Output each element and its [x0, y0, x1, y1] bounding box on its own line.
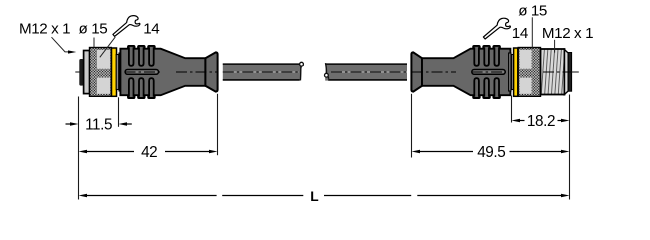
connector J1 thread face	[84, 51, 90, 94]
centerline J2 cap	[412, 71, 456, 73]
extension line right tip x569.5	[569, 95, 571, 200]
connector J2 nut flat lower	[520, 78, 532, 94]
centerline left stub	[75, 71, 90, 73]
dimension 11.5 right outside arrow	[119, 122, 128, 125]
connector J1 female front nose	[79, 59, 83, 86]
cable left light centerline stripe	[223, 71, 299, 73]
leader M12x1 left	[52, 37, 70, 52]
extension line right cap x411.5	[411, 94, 413, 158]
connector J1 rib groove 2	[139, 47, 144, 66]
centerline J2 slot	[472, 71, 506, 73]
wrench icon left	[113, 16, 140, 37]
cable right segment	[325, 63, 407, 80]
svg-text:49.5: 49.5	[477, 144, 505, 161]
connector J2 thread M12	[541, 49, 565, 95]
connector J1 yellow band	[112, 48, 117, 96]
connector J2 knurled nut	[518, 48, 540, 97]
svg-text:M12 x 1: M12 x 1	[542, 25, 593, 42]
connector J2 spacer ring	[509, 53, 511, 91]
connector J2 rib groove 1	[474, 47, 479, 66]
cable right bottom edge	[328, 79, 407, 81]
connector J1 nut flat lower	[97, 78, 110, 94]
connector J1 rib groove 3 bottom	[149, 78, 154, 97]
dimension 49.5 line	[412, 150, 421, 153]
connector J1 rib groove 1	[129, 47, 134, 66]
connector J1 spacer ring	[116, 55, 119, 90]
cable break right loop	[325, 73, 329, 77]
connector J2 thread chamfer	[565, 50, 569, 95]
connector J1 nut flat upper	[97, 50, 110, 69]
cable right top edge	[325, 63, 407, 65]
svg-text:ø 15: ø 15	[518, 2, 547, 19]
cable left top edge	[223, 63, 304, 65]
centerline J1 slot	[125, 71, 161, 73]
connector J2 rib groove 2	[484, 47, 489, 66]
connector J2 rib groove 1 bottom	[474, 78, 479, 97]
wrench icon right	[483, 18, 510, 39]
cable break left squiggle stem	[299, 66, 302, 80]
svg-text:14: 14	[512, 25, 528, 42]
connector J2 rib groove 3	[494, 47, 499, 66]
cable left bottom edge	[223, 79, 301, 81]
connector J2 label slot	[472, 70, 505, 75]
connector J2 rib groove 2 bottom	[484, 78, 489, 97]
svg-text:11.5: 11.5	[85, 116, 112, 133]
connector J2 yellow band	[514, 48, 518, 96]
svg-text:ø 15: ø 15	[79, 21, 108, 38]
svg-text:L: L	[310, 189, 318, 204]
cable break right loop exit	[327, 76, 330, 78]
connector J1 rib groove 1 bottom	[129, 78, 134, 97]
connector J1 rib groove 3	[149, 47, 154, 66]
cable break left loop	[300, 62, 304, 66]
cable break right white cutout	[322, 62, 327, 73]
connector J2 front face	[568, 53, 571, 92]
dimension 18.2 line	[512, 119, 521, 122]
svg-text:M12 x 1: M12 x 1	[19, 21, 70, 38]
connector J2 strain relief cap	[411, 52, 422, 91]
connector J1 strain relief cap	[205, 52, 217, 91]
cable left dash-dot centerline	[223, 71, 299, 73]
svg-text:14: 14	[143, 21, 159, 38]
connector J1 rib groove 2 bottom	[139, 78, 144, 97]
extension line left cap x217.5	[217, 94, 219, 155]
cable left segment	[223, 63, 304, 80]
centerline right stub	[572, 71, 579, 73]
connector J2 nut flat upper	[520, 50, 532, 69]
leader diameter 15 right	[531, 17, 533, 49]
connector J1 body	[120, 46, 205, 98]
cable right dash-dot centerline	[331, 71, 407, 73]
connector J1 label slot	[125, 70, 158, 75]
connector J1 knurled nut	[90, 48, 112, 97]
dimension 11.5 left outside arrow	[66, 123, 72, 125]
centerline J2 thread dashes	[543, 71, 572, 73]
extension line right yellow x511.5	[511, 96, 513, 123]
cable break right squiggle stem	[325, 63, 328, 73]
dimension 42 line	[79, 150, 88, 153]
leader diameter 15 left	[93, 38, 95, 48]
svg-text:42: 42	[141, 144, 157, 161]
connector J2 body	[422, 46, 510, 98]
leader M12x1 right	[554, 40, 556, 53]
extension line left face x79	[78, 97, 80, 200]
cable break left white cutout	[300, 66, 306, 82]
connector J2 rib groove 3 bottom	[494, 78, 499, 97]
leader 14 left	[100, 37, 116, 57]
dimension L line	[79, 194, 88, 197]
centerline J1 cap	[176, 71, 218, 73]
extension line left yellow x118	[118, 97, 120, 127]
cable right light centerline stripe	[331, 71, 407, 73]
svg-text:18.2: 18.2	[527, 113, 555, 130]
